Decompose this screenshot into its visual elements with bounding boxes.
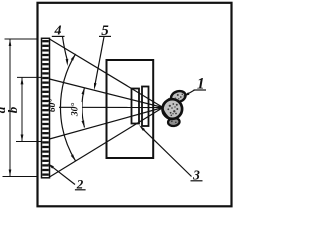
dimension b line bbox=[16, 77, 45, 141]
svg-text:30°: 30° bbox=[70, 103, 81, 118]
dimension a line bbox=[3, 39, 39, 177]
60 deg arc bbox=[60, 54, 75, 161]
center line bbox=[50, 106, 164, 108]
screen bar (element 2) bbox=[42, 38, 50, 178]
eye symbol (element 1) bbox=[162, 89, 187, 126]
angle labels with white bg bbox=[51, 98, 60, 114]
inner rect B (element 3) bbox=[142, 87, 149, 127]
svg-text:2: 2 bbox=[76, 176, 84, 191]
rays bbox=[50, 39, 164, 177]
30 deg arc bbox=[82, 88, 85, 128]
svg-text:60°: 60° bbox=[47, 99, 58, 113]
big rectangle (housing) bbox=[107, 60, 154, 158]
inner rect A bbox=[132, 89, 140, 124]
svg-text:b: b bbox=[5, 106, 20, 113]
outer frame bbox=[38, 3, 232, 207]
